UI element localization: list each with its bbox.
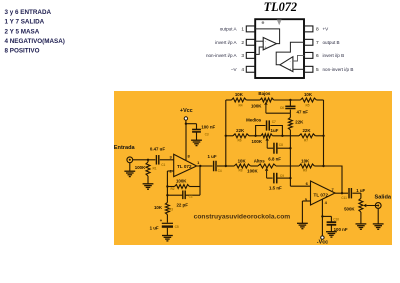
svg-text:6.8 nF: 6.8 nF bbox=[268, 156, 281, 161]
wire fb right vertical bbox=[199, 166, 201, 195]
resistor R8 10K bbox=[234, 164, 250, 168]
svg-text:5: 5 bbox=[316, 67, 319, 73]
label R7 bbox=[302, 128, 311, 143]
capacitor C4 1uF bbox=[214, 161, 226, 172]
svg-text:1 Y 7 SALIDA: 1 Y 7 SALIDA bbox=[5, 19, 45, 26]
capacitor C9 1.5nF bbox=[274, 173, 291, 184]
wire jack to node bbox=[133, 159, 148, 161]
wire pin4 to C10 bbox=[322, 216, 331, 222]
capacitor C11 1uF bbox=[349, 188, 361, 198]
ground C5 bbox=[162, 236, 173, 241]
wire U2 output bbox=[335, 192, 348, 194]
label Entrada bbox=[114, 145, 136, 151]
right rail bbox=[323, 100, 325, 166]
output jack J2 bbox=[375, 203, 381, 209]
orange schematic panel bbox=[114, 91, 392, 245]
label C6 bbox=[280, 106, 308, 115]
capacitor C3 100nF bbox=[192, 130, 201, 141]
potentiometer P4 500K bbox=[359, 198, 363, 224]
label C5 bbox=[150, 225, 179, 230]
svg-text:8 POSITIVO: 8 POSITIVO bbox=[5, 48, 40, 55]
node U1 output bbox=[199, 165, 201, 167]
TL072 title bbox=[264, 0, 297, 14]
svg-text:10K: 10K bbox=[304, 92, 313, 97]
wire U1 pin2 bbox=[167, 170, 173, 172]
svg-text:10K: 10K bbox=[154, 205, 163, 210]
wire bass left bbox=[226, 99, 232, 101]
svg-text:3 y 6 ENTRADA: 3 y 6 ENTRADA bbox=[5, 9, 52, 16]
wire altos left bbox=[226, 165, 234, 167]
svg-text:R5: R5 bbox=[305, 103, 309, 107]
label Medios bbox=[246, 117, 262, 122]
capacitor C7 1uF parallel loop bbox=[256, 120, 283, 135]
wire to U2 pin6 bbox=[290, 178, 310, 186]
wire U2 pin4 bbox=[321, 199, 323, 236]
IC pins 1-4 left bbox=[246, 26, 254, 72]
label R1 bbox=[135, 165, 157, 171]
terminal -Vcc bbox=[321, 236, 324, 239]
wire C11 to pot bbox=[360, 193, 362, 198]
op-amp U2 TL072 bbox=[311, 181, 336, 205]
svg-text:R9: R9 bbox=[303, 169, 307, 173]
label C10 bbox=[333, 217, 348, 232]
svg-text:C8: C8 bbox=[279, 143, 283, 147]
label C11 bbox=[341, 188, 365, 200]
watermark text bbox=[194, 214, 291, 221]
label P4 value bbox=[344, 207, 355, 212]
resistor R1 100K bbox=[146, 160, 150, 184]
wire R4 to pot bbox=[246, 99, 260, 101]
node C8 right bbox=[289, 147, 291, 149]
svg-text:10K: 10K bbox=[238, 159, 247, 164]
svg-text:+Vcc: +Vcc bbox=[180, 108, 193, 114]
svg-text:1.5 nF: 1.5 nF bbox=[269, 186, 282, 191]
svg-text:C6: C6 bbox=[280, 106, 284, 110]
svg-text:2 Y 5 MASA: 2 Y 5 MASA bbox=[5, 28, 40, 35]
svg-text:100K: 100K bbox=[247, 168, 258, 173]
wire R8 to pot bbox=[250, 165, 258, 167]
IC notch marker bbox=[277, 20, 282, 26]
label Altos bbox=[254, 159, 266, 164]
wire R7 to rail bbox=[315, 135, 323, 137]
label R10 bbox=[295, 119, 304, 124]
svg-text:TL072: TL072 bbox=[264, 0, 297, 14]
wire R9 to rail bbox=[314, 165, 323, 167]
ground input jack bbox=[124, 163, 135, 177]
node pin4 junction bbox=[321, 215, 323, 217]
resistor R2 100K feedback bbox=[167, 185, 200, 189]
node C9 right bbox=[289, 177, 291, 179]
svg-text:8: 8 bbox=[316, 27, 319, 33]
label C7 bbox=[271, 120, 279, 133]
P4 wiper bbox=[363, 204, 377, 207]
resistor R9 10K bbox=[299, 164, 314, 168]
wire U1 output bbox=[197, 165, 213, 167]
svg-text:R3: R3 bbox=[169, 207, 173, 211]
svg-text:4: 4 bbox=[241, 67, 244, 73]
svg-text:1uF: 1uF bbox=[271, 128, 279, 133]
node right rail bottom bbox=[322, 165, 324, 167]
label Bajos bbox=[258, 91, 271, 96]
svg-text:22 pF: 22 pF bbox=[176, 202, 188, 207]
potentiometer P1 Bajos 100K bbox=[260, 98, 274, 102]
node input bbox=[147, 159, 149, 161]
svg-text:22K: 22K bbox=[236, 128, 245, 133]
label P1 value bbox=[251, 104, 262, 109]
U1 pin labels bbox=[169, 154, 200, 174]
resistor R5 10K bbox=[300, 98, 316, 102]
svg-text:500K: 500K bbox=[344, 207, 355, 212]
ground R1 bbox=[143, 184, 154, 189]
svg-text:–V: –V bbox=[231, 67, 238, 72]
capacitor C10 100nF bbox=[327, 222, 337, 232]
svg-text:R2: R2 bbox=[170, 187, 174, 191]
label C8 bbox=[268, 143, 283, 161]
svg-text:100 nF: 100 nF bbox=[201, 125, 215, 130]
node Vcc bbox=[185, 123, 187, 125]
svg-text:R1: R1 bbox=[153, 167, 157, 171]
svg-text:22K: 22K bbox=[302, 128, 311, 133]
svg-text:C7: C7 bbox=[272, 120, 276, 124]
node left rail bottom bbox=[225, 165, 227, 167]
left rail bbox=[225, 100, 227, 166]
node right rail mid bbox=[322, 135, 324, 137]
P3 wiper bbox=[265, 168, 273, 178]
svg-text:C11: C11 bbox=[341, 196, 347, 200]
svg-text:Entrada: Entrada bbox=[114, 145, 136, 151]
label Salida bbox=[375, 195, 392, 201]
terminal +Vcc bbox=[184, 117, 187, 120]
svg-text:100K: 100K bbox=[135, 165, 146, 170]
IC pin-1 index dot bbox=[262, 21, 265, 24]
IC right pin labels bbox=[316, 27, 353, 73]
label R8 bbox=[238, 159, 247, 173]
svg-text:TL 072: TL 072 bbox=[177, 164, 192, 169]
svg-text:C3: C3 bbox=[205, 132, 209, 136]
svg-text:10K: 10K bbox=[301, 159, 310, 164]
wire mid left bbox=[226, 135, 233, 137]
IC internal op-amp A bbox=[255, 29, 280, 55]
label C9 bbox=[269, 174, 284, 190]
label -Vcc bbox=[317, 240, 328, 246]
label R2 bbox=[170, 179, 187, 191]
capacitor C6 47nF bbox=[285, 100, 295, 113]
wire pot to R7 bbox=[272, 135, 299, 137]
svg-text:1: 1 bbox=[241, 27, 244, 33]
svg-text:Salida: Salida bbox=[375, 195, 392, 201]
svg-text:6: 6 bbox=[316, 53, 319, 59]
svg-text:100K: 100K bbox=[251, 104, 262, 109]
svg-text:4 NEGATIVO(MASA): 4 NEGATIVO(MASA) bbox=[5, 38, 65, 45]
svg-text:7: 7 bbox=[316, 40, 319, 46]
svg-text:0.47 uF: 0.47 uF bbox=[150, 147, 165, 152]
label C1 bbox=[150, 147, 166, 167]
wire U1 pin8 to Vcc bbox=[185, 124, 187, 161]
potentiometer P3 Altos 100K bbox=[258, 164, 276, 168]
svg-text:47 nF: 47 nF bbox=[297, 110, 309, 115]
svg-text:invert i/p A: invert i/p A bbox=[215, 40, 237, 45]
node mid loop left bbox=[254, 135, 256, 137]
input jack J1 bbox=[127, 157, 133, 163]
svg-text:Medios: Medios bbox=[246, 117, 262, 122]
resistor R6 22K bbox=[233, 134, 249, 138]
capacitor C2 22pF bbox=[167, 191, 200, 200]
svg-text:10K: 10K bbox=[235, 92, 244, 97]
svg-text:100K: 100K bbox=[252, 139, 263, 144]
svg-text:+V: +V bbox=[323, 27, 330, 32]
node fb bottom bbox=[166, 194, 168, 196]
label C2 bbox=[176, 194, 192, 207]
svg-text:non-invert i/p A: non-invert i/p A bbox=[206, 53, 238, 58]
ground output jack bbox=[373, 208, 384, 229]
svg-text:C2: C2 bbox=[189, 194, 193, 198]
label C4 bbox=[207, 154, 221, 173]
svg-text:C4: C4 bbox=[218, 169, 222, 173]
ground C3 bbox=[191, 140, 202, 145]
svg-text:+: + bbox=[265, 46, 267, 50]
node output fb bbox=[341, 192, 343, 194]
label C3 bbox=[201, 125, 215, 137]
ground C10 bbox=[326, 232, 337, 237]
svg-text:-Vcc: -Vcc bbox=[317, 240, 328, 246]
wire inverting node vertical bbox=[166, 171, 168, 195]
wire R6 to pot bbox=[249, 135, 261, 137]
potentiometer P2 Medios 100K bbox=[261, 134, 272, 138]
IC left pin labels bbox=[206, 27, 244, 73]
svg-text:invert i/p B: invert i/p B bbox=[323, 53, 345, 58]
svg-text:3: 3 bbox=[241, 53, 244, 59]
pin description text list bbox=[5, 9, 65, 54]
svg-text:C10: C10 bbox=[333, 217, 339, 221]
label R6 bbox=[236, 128, 245, 143]
label +Vcc bbox=[180, 108, 193, 114]
resistor R3 10K bbox=[165, 195, 169, 222]
U2 pin labels bbox=[305, 181, 335, 205]
node bass C6 bbox=[289, 99, 291, 101]
op-amp U1 TL072 bbox=[174, 154, 197, 176]
label R4 bbox=[235, 92, 244, 107]
resistor R4 10K bbox=[232, 98, 247, 102]
wire Vcc to C3 bbox=[186, 124, 197, 130]
svg-text:C1: C1 bbox=[161, 163, 165, 167]
label R5 bbox=[304, 92, 313, 107]
svg-text:non-invert i/p B: non-invert i/p B bbox=[323, 67, 354, 72]
resistor R7 22K bbox=[299, 134, 315, 138]
IC pins 5-8 right bbox=[305, 26, 313, 72]
svg-text:+: + bbox=[289, 68, 291, 72]
svg-text:1 uF: 1 uF bbox=[207, 154, 216, 159]
capacitor C1 0.47uF bbox=[148, 155, 174, 165]
capacitor C5 1uF electrolytic bbox=[160, 218, 173, 235]
svg-text:C9: C9 bbox=[280, 174, 284, 178]
svg-text:1 uF: 1 uF bbox=[356, 188, 365, 193]
wire U2 pin5 ground bbox=[302, 201, 310, 223]
svg-text:R6: R6 bbox=[237, 139, 241, 143]
svg-text:C5: C5 bbox=[175, 225, 179, 229]
node mid loop right bbox=[281, 135, 283, 137]
svg-text:2: 2 bbox=[241, 40, 244, 46]
P2 wiper bbox=[266, 138, 274, 149]
svg-text:1 uF: 1 uF bbox=[150, 226, 159, 231]
wire Vcc to junction bbox=[185, 120, 187, 124]
svg-text:output A: output A bbox=[220, 27, 238, 32]
svg-text:22K: 22K bbox=[295, 119, 304, 124]
ground U2 pin5 bbox=[297, 223, 308, 228]
svg-text:output B: output B bbox=[323, 40, 340, 45]
svg-text:R8: R8 bbox=[238, 169, 242, 173]
label R9 bbox=[301, 159, 310, 173]
P1 wiper bbox=[264, 102, 290, 113]
label P2 value bbox=[252, 139, 263, 144]
wire pot to node bbox=[274, 99, 301, 101]
node fb top bbox=[166, 185, 168, 187]
svg-text:R7: R7 bbox=[304, 139, 308, 143]
svg-text:TL 072: TL 072 bbox=[314, 192, 329, 197]
node left rail mid bbox=[225, 135, 227, 137]
svg-text:100K: 100K bbox=[176, 179, 187, 184]
resistor R10 22K vertical bbox=[288, 113, 292, 178]
IC internal op-amp B bbox=[276, 42, 304, 71]
wire R5 to rail bbox=[316, 99, 323, 101]
IC U1 body DIP-8 bbox=[255, 19, 304, 78]
svg-text:R4: R4 bbox=[238, 103, 242, 107]
ground P4 bbox=[356, 224, 367, 229]
capacitor C8 6.8nF bbox=[274, 143, 290, 154]
svg-text:Altos: Altos bbox=[254, 159, 266, 164]
svg-text:Bajos: Bajos bbox=[258, 91, 271, 96]
wire feedback to output bbox=[324, 166, 343, 193]
wire pot to R9 bbox=[276, 165, 299, 167]
label R3 bbox=[154, 205, 173, 211]
svg-text:construyasuvideorockola.com: construyasuvideorockola.com bbox=[194, 214, 291, 221]
label P3 value bbox=[247, 168, 258, 173]
